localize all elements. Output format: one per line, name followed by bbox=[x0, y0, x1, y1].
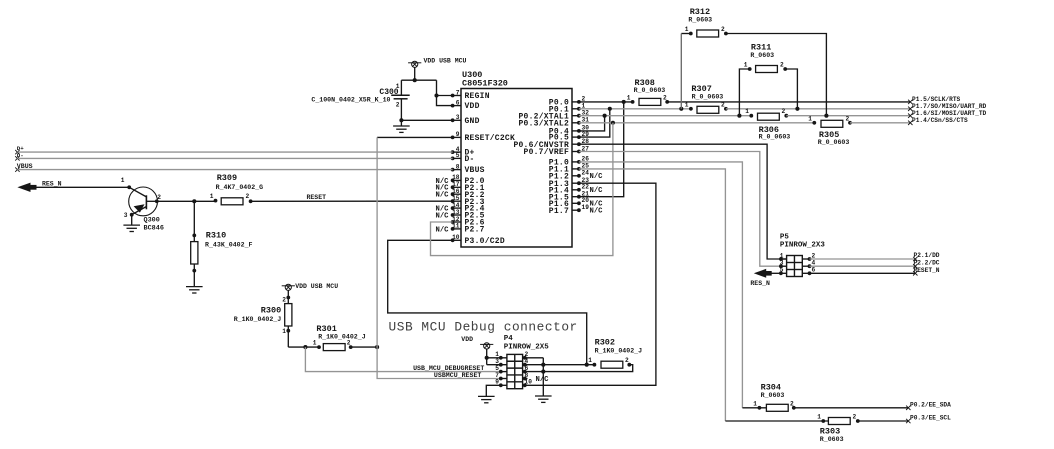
wire bus line3 to P1.6/SI/MOSI/UART_TD bbox=[786, 115, 910, 117]
wire P5 pin2 to P2.1/DD bbox=[810, 258, 916, 260]
wire R304 input bbox=[742, 407, 766, 409]
node R312 pin2 junction bbox=[824, 114, 828, 118]
svg-text:R_43K_0402_F: R_43K_0402_F bbox=[205, 241, 253, 248]
wire RESET/C2CK vertical from pin 9 bbox=[377, 136, 453, 138]
svg-text:2: 2 bbox=[846, 115, 850, 122]
node P2.6 riser junction bbox=[611, 121, 615, 125]
node R312 pin1 junction bbox=[679, 107, 683, 111]
svg-text:D-: D- bbox=[465, 155, 475, 164]
svg-text:11: 11 bbox=[452, 223, 460, 230]
ground below C300 bbox=[393, 125, 410, 127]
svg-text:1: 1 bbox=[745, 108, 749, 115]
pin 8 of P4 bbox=[523, 378, 528, 380]
node RESET/C2CK junction bbox=[375, 345, 379, 349]
pin 8 VBUS of U300 bbox=[453, 169, 461, 171]
svg-text:VDD: VDD bbox=[465, 102, 480, 111]
svg-text:VDD USB MCU: VDD USB MCU bbox=[295, 283, 338, 290]
pin 3 of P5 bbox=[779, 264, 783, 268]
pin 4 of P4 bbox=[523, 364, 544, 366]
node P1.5 riser junction bbox=[622, 100, 626, 104]
pin 28 P0.6/CNVSTR of U300 bbox=[572, 143, 579, 145]
svg-text:10: 10 bbox=[525, 379, 533, 386]
pin 14 P2.4 of U300 bbox=[453, 207, 461, 209]
pin 10 of P4 bbox=[523, 384, 544, 386]
node RESET junction at R310 bbox=[192, 199, 196, 203]
wire P0.5 jog riser bbox=[579, 109, 610, 137]
wire P4 pin4 row to R302 bbox=[543, 364, 594, 366]
pin 5 of P5 bbox=[779, 271, 783, 275]
svg-text:N/C: N/C bbox=[436, 226, 450, 234]
emitter of Q300 with arrow bbox=[132, 207, 147, 215]
pin 13 P2.5 of U300 bbox=[453, 214, 461, 216]
svg-text:RESET/C2CK: RESET/C2CK bbox=[465, 134, 516, 143]
pin 26 P1.0 of U300 bbox=[572, 161, 579, 163]
wire RES_N to Q300 base bbox=[37, 186, 130, 188]
svg-text:PINROW_2X3: PINROW_2X3 bbox=[780, 242, 826, 250]
wire R301 pin2 to RESET/C2CK node bbox=[351, 346, 377, 348]
wire R312 pin1 to line2 bbox=[681, 33, 691, 35]
transistor Q300 BC846 bbox=[129, 187, 158, 216]
wire P4 even pins to ground bbox=[542, 358, 544, 396]
svg-text:P0.2/EE_SDA: P0.2/EE_SDA bbox=[910, 401, 951, 408]
svg-text:R_0603: R_0603 bbox=[688, 16, 712, 23]
wire bus line1 to P1.5/SCLK/RTS bbox=[667, 101, 910, 103]
svg-text:2: 2 bbox=[853, 414, 857, 421]
pin 16 P2.2 of U300 bbox=[453, 193, 461, 195]
power symbol VDD USB MCU (lower) bbox=[282, 285, 295, 287]
pin 6 of P5 bbox=[802, 272, 809, 274]
wire USB_MCU_DEBUGRESET to P4 pin 5 bbox=[305, 347, 500, 372]
svg-text:2: 2 bbox=[282, 296, 286, 303]
pin 1 of P4 bbox=[487, 357, 507, 359]
wire Q300 collector to R309 bbox=[157, 200, 216, 202]
pin 24 P1.2 of U300 bbox=[572, 175, 579, 177]
svg-text:1: 1 bbox=[627, 94, 631, 101]
wire P0.1 bus line2 left segment bbox=[579, 108, 691, 110]
svg-text:P1.6/SI/MOSI/UART_TD: P1.6/SI/MOSI/UART_TD bbox=[912, 110, 987, 117]
net label P2.1/DD bbox=[913, 257, 917, 261]
node REGIN tee bbox=[434, 93, 438, 97]
svg-text:R300: R300 bbox=[261, 306, 281, 316]
svg-text:Q300: Q300 bbox=[144, 216, 160, 224]
wire P5 pin4 to P2.2/DC bbox=[810, 265, 916, 267]
power symbol VDD USB MCU (top) bbox=[408, 62, 421, 64]
net label P1.6/SI/MOSI/UART_TD bbox=[908, 114, 912, 118]
svg-text:R310: R310 bbox=[206, 230, 226, 240]
svg-text:1: 1 bbox=[313, 340, 317, 347]
svg-text:R301: R301 bbox=[316, 324, 336, 334]
wire REGIN stub bbox=[437, 95, 453, 97]
pin 7 of P4 bbox=[501, 378, 507, 380]
svg-text:R_1K0_0402_J: R_1K0_0402_J bbox=[234, 316, 282, 323]
svg-text:BC846: BC846 bbox=[144, 225, 164, 233]
svg-text:GND: GND bbox=[465, 117, 480, 126]
pin 19 P1.7 of U300 bbox=[572, 209, 579, 211]
pin 6 of P4 bbox=[523, 371, 544, 373]
pin 7 REGIN of U300 bbox=[453, 95, 461, 97]
svg-text:R_4K7_0402_G: R_4K7_0402_G bbox=[216, 184, 264, 191]
wire to P4 pin 7 USBMCU_RESET bbox=[377, 347, 501, 378]
svg-text:R302: R302 bbox=[595, 337, 615, 347]
net label P0.2/EE_SDA bbox=[906, 406, 910, 410]
net RES_N arrow (left) bbox=[17, 183, 30, 192]
wire R312 pin2 to line3 bbox=[726, 34, 827, 116]
pin 27 P0.7/VREF of U300 bbox=[572, 151, 579, 153]
svg-text:3: 3 bbox=[124, 212, 128, 219]
wire VDD to P4 pins 1,3 bbox=[486, 349, 488, 365]
svg-text:2: 2 bbox=[246, 193, 250, 200]
net D- entry bbox=[15, 156, 19, 160]
pin 12 P2.6 of U300 bbox=[453, 221, 461, 223]
op-amp U1 equivalent: IC U300 C8051F320 body bbox=[461, 89, 572, 248]
pin 4 D+ of U300 bbox=[453, 151, 461, 153]
svg-text:P2.7: P2.7 bbox=[465, 226, 485, 235]
svg-text:R_0603: R_0603 bbox=[820, 436, 844, 443]
svg-text:9: 9 bbox=[456, 131, 460, 138]
svg-text:R_1K0_0402_J: R_1K0_0402_J bbox=[595, 347, 643, 354]
pin 18 P2.0 of U300 bbox=[453, 179, 461, 181]
wire bus line2 to P1.7/SO/MISO/UART_RD bbox=[726, 108, 910, 110]
svg-text:1: 1 bbox=[210, 193, 214, 200]
node USB_MCU_DEBUGRESET junction bbox=[303, 345, 307, 349]
svg-text:8: 8 bbox=[456, 163, 460, 170]
pin 2 P0.0 of U300 bbox=[572, 101, 579, 103]
svg-text:N/C: N/C bbox=[590, 208, 604, 216]
svg-text:P0.7/VREF: P0.7/VREF bbox=[524, 148, 569, 157]
pin 21 P1.5 of U300 bbox=[572, 196, 579, 198]
pin 4 of P5 bbox=[802, 265, 809, 267]
svg-text:19: 19 bbox=[582, 204, 590, 211]
wire P0.4 jog riser bbox=[579, 116, 605, 131]
power symbol VDD at P4 bbox=[480, 343, 493, 345]
svg-text:VBUS: VBUS bbox=[465, 166, 485, 175]
wire P1.3 to P4 pin10 bbox=[543, 183, 656, 385]
pin 30 P0.4 of U300 bbox=[572, 130, 579, 132]
svg-text:R307: R307 bbox=[691, 84, 711, 94]
svg-text:VDD USB MCU: VDD USB MCU bbox=[424, 58, 467, 65]
wire P5 pin6 to RESET_N bbox=[810, 272, 916, 274]
svg-text:6: 6 bbox=[456, 99, 460, 106]
pin 32 P0.2/XTAL1 of U300 bbox=[572, 115, 579, 117]
svg-text:3: 3 bbox=[456, 114, 460, 121]
svg-text:P1.5/SCLK/RTS: P1.5/SCLK/RTS bbox=[912, 96, 961, 103]
pin 11 P2.7 of U300 bbox=[453, 228, 461, 230]
pin 22 P1.4 of U300 bbox=[572, 189, 579, 191]
node P0.5 junction bbox=[608, 107, 612, 111]
wire bus line4 to P1.4/CSn/SS/CTS bbox=[850, 122, 910, 124]
svg-text:R_0603: R_0603 bbox=[761, 392, 785, 399]
wire VDD rail to REGIN/VDD pins bbox=[437, 80, 453, 105]
pin 1 P0.1 of U300 bbox=[572, 108, 579, 110]
pin 17 P2.1 of U300 bbox=[453, 186, 461, 188]
svg-text:1: 1 bbox=[685, 26, 689, 33]
wire D- bbox=[17, 157, 452, 159]
svg-text:24: 24 bbox=[582, 170, 590, 177]
svg-text:VDD: VDD bbox=[461, 336, 473, 343]
node C300-GND junction bbox=[399, 118, 403, 122]
svg-text:REGIN: REGIN bbox=[465, 92, 490, 101]
node R311 pin2 junction bbox=[795, 107, 799, 111]
wire VDD USB MCU stub down bbox=[414, 67, 416, 80]
svg-text:R_0_0603: R_0_0603 bbox=[818, 139, 850, 146]
wire P0.0 bus line1 left segment bbox=[579, 101, 633, 103]
svg-text:N/C: N/C bbox=[590, 173, 604, 181]
resistor R310 R_43K_0402_F bbox=[193, 201, 195, 241]
svg-text:PINROW_2X5: PINROW_2X5 bbox=[504, 343, 550, 351]
svg-text:10: 10 bbox=[452, 234, 460, 241]
svg-text:N/C: N/C bbox=[536, 376, 550, 384]
svg-text:P0.3/EE_SCL: P0.3/EE_SCL bbox=[910, 415, 951, 422]
pin 2 of P4 bbox=[523, 357, 544, 359]
pin 31 P0.3/XTAL2 of U300 bbox=[572, 122, 579, 124]
svg-text:1: 1 bbox=[808, 115, 812, 122]
wire R311 pin1 to line3 bbox=[739, 69, 749, 116]
svg-text:C8051F320: C8051F320 bbox=[462, 79, 508, 89]
pin 9 of P4 bbox=[501, 384, 507, 386]
wire GND pin stub bbox=[401, 119, 452, 121]
wire P4 pin 9 to ground bbox=[486, 385, 501, 396]
wire RESET from R309 to P2.3 bbox=[251, 200, 453, 202]
pin 2 of P5 bbox=[802, 258, 809, 260]
pin 25 P1.1 of U300 bbox=[572, 168, 579, 170]
svg-text:R_0_0603: R_0_0603 bbox=[759, 134, 791, 141]
svg-text:2: 2 bbox=[782, 108, 786, 115]
svg-text:C_100N_0402_X5R_K_10: C_100N_0402_X5R_K_10 bbox=[311, 97, 390, 104]
svg-text:2: 2 bbox=[721, 26, 725, 33]
ground below Q300 bbox=[123, 224, 140, 226]
svg-text:N/C: N/C bbox=[590, 187, 604, 195]
net label P1.5/SCLK/RTS bbox=[908, 100, 912, 104]
svg-text:1: 1 bbox=[744, 62, 748, 69]
resistor R300 R_1K0_0402_J bbox=[287, 290, 289, 303]
svg-text:2: 2 bbox=[780, 62, 784, 69]
net label P1.4/CSn/SS/CTS bbox=[908, 121, 912, 125]
net label RESET_N bbox=[913, 271, 917, 275]
ground below R310 bbox=[186, 286, 203, 288]
pin 9 RESET/C2CK of U300 bbox=[453, 136, 461, 138]
wire P3.0/C2D route (debug box outline) bbox=[388, 240, 587, 364]
net D+ entry bbox=[15, 150, 19, 154]
svg-text:P3.0/C2D: P3.0/C2D bbox=[465, 237, 505, 246]
svg-text:P5: P5 bbox=[780, 233, 790, 241]
svg-text:USBMCU_RESET: USBMCU_RESET bbox=[434, 372, 482, 379]
svg-text:2: 2 bbox=[721, 101, 725, 108]
svg-text:1: 1 bbox=[121, 177, 125, 184]
svg-text:D+: D+ bbox=[17, 145, 24, 152]
svg-text:13: 13 bbox=[452, 209, 460, 216]
svg-text:N/C: N/C bbox=[436, 212, 450, 220]
svg-text:1: 1 bbox=[685, 101, 689, 108]
wire P2.6 route riser bbox=[431, 123, 613, 256]
wire P1.5 riser bbox=[579, 102, 624, 197]
svg-text:1: 1 bbox=[817, 414, 821, 421]
svg-text:2: 2 bbox=[396, 102, 400, 109]
net label P2.2/DC bbox=[913, 264, 917, 268]
node P0.4 junction bbox=[603, 114, 607, 118]
capacitor C300 bbox=[400, 80, 402, 95]
svg-text:1: 1 bbox=[282, 328, 286, 335]
wire D+ bbox=[17, 151, 452, 153]
svg-text:USB MCU Debug connector: USB MCU Debug connector bbox=[389, 320, 578, 335]
svg-text:16: 16 bbox=[452, 188, 460, 195]
wire P0.7/VREF to P5 pin3 bbox=[579, 152, 787, 267]
svg-text:5: 5 bbox=[456, 152, 460, 159]
svg-text:RESET_N: RESET_N bbox=[914, 267, 940, 274]
pin 3 GND of U300 bbox=[453, 119, 461, 121]
wire P0.2 bus line3 left segment bbox=[579, 115, 751, 117]
pin 23 P1.3 of U300 bbox=[572, 182, 579, 184]
wire P0.3 bus line4 left segment bbox=[579, 122, 814, 124]
svg-text:R_1K0_0402_J: R_1K0_0402_J bbox=[318, 334, 366, 341]
pin 3 of P4 bbox=[487, 364, 507, 366]
svg-text:RES_N: RES_N bbox=[750, 280, 770, 287]
wire to P0.3/EE_SCL bbox=[858, 420, 909, 422]
wire R311 pin2 to line2 bbox=[785, 69, 797, 109]
pin 5 stub wire bbox=[781, 272, 787, 274]
net RES_N arrow (at P5) bbox=[754, 269, 766, 278]
pin 10 P3.0/C2D of U300 bbox=[453, 239, 461, 241]
wire R303 input bbox=[725, 420, 828, 422]
pin 20 P1.6 of U300 bbox=[572, 202, 579, 204]
svg-text:RES_N: RES_N bbox=[42, 181, 62, 188]
node R311 pin1 junction bbox=[737, 114, 741, 118]
svg-text:7: 7 bbox=[456, 89, 460, 96]
net label P0.3/EE_SCL bbox=[906, 419, 910, 423]
wire P0.6/CNVSTR to P5 pin1 bbox=[579, 144, 787, 259]
wire to P0.2/EE_SDA bbox=[794, 407, 909, 409]
svg-text:N/C: N/C bbox=[436, 192, 450, 200]
ground below P4 left bbox=[478, 395, 495, 397]
net VBUS entry bbox=[15, 167, 19, 171]
wire R300 to junction bbox=[288, 346, 319, 348]
node C2D to R302 junction bbox=[585, 363, 589, 367]
svg-text:R_0603: R_0603 bbox=[750, 52, 774, 59]
pin 6 VDD of U300 bbox=[453, 105, 461, 107]
pin 5 D- of U300 bbox=[453, 157, 461, 159]
wire VBUS bbox=[17, 169, 452, 171]
wire Q300 emitter to ground bbox=[131, 215, 133, 225]
svg-text:1: 1 bbox=[753, 400, 757, 407]
svg-text:R309: R309 bbox=[217, 173, 237, 183]
ground below P4 right bbox=[535, 395, 552, 397]
pin 5 of P4 bbox=[501, 371, 507, 373]
svg-text:R_0_0603: R_0_0603 bbox=[634, 87, 666, 94]
pin 15 P2.3 of U300 bbox=[453, 200, 461, 202]
svg-text:P4: P4 bbox=[504, 335, 514, 343]
net label P1.7/SO/MISO/UART_RD bbox=[908, 107, 912, 111]
node VDD rail junction bbox=[413, 78, 417, 82]
wire VDD rail horizontal bbox=[401, 79, 436, 81]
wire P1.1 riser to R303 bbox=[579, 169, 726, 421]
svg-text:1: 1 bbox=[588, 357, 592, 364]
pin 1 of P5 bbox=[779, 257, 783, 261]
svg-text:P2.1/DD: P2.1/DD bbox=[914, 252, 940, 259]
svg-text:P2.2/DC: P2.2/DC bbox=[914, 260, 940, 267]
wire R302 pin2 loop to ground net bbox=[543, 365, 632, 372]
svg-text:RESET: RESET bbox=[307, 194, 327, 201]
svg-text:R_0_0603: R_0_0603 bbox=[692, 94, 724, 101]
wire P1.0 riser to R304 bbox=[579, 162, 743, 408]
pin 29 P0.5 of U300 bbox=[572, 136, 579, 138]
svg-text:P1.7: P1.7 bbox=[549, 207, 569, 216]
svg-text:P1.4/CSn/SS/CTS: P1.4/CSn/SS/CTS bbox=[912, 117, 968, 124]
